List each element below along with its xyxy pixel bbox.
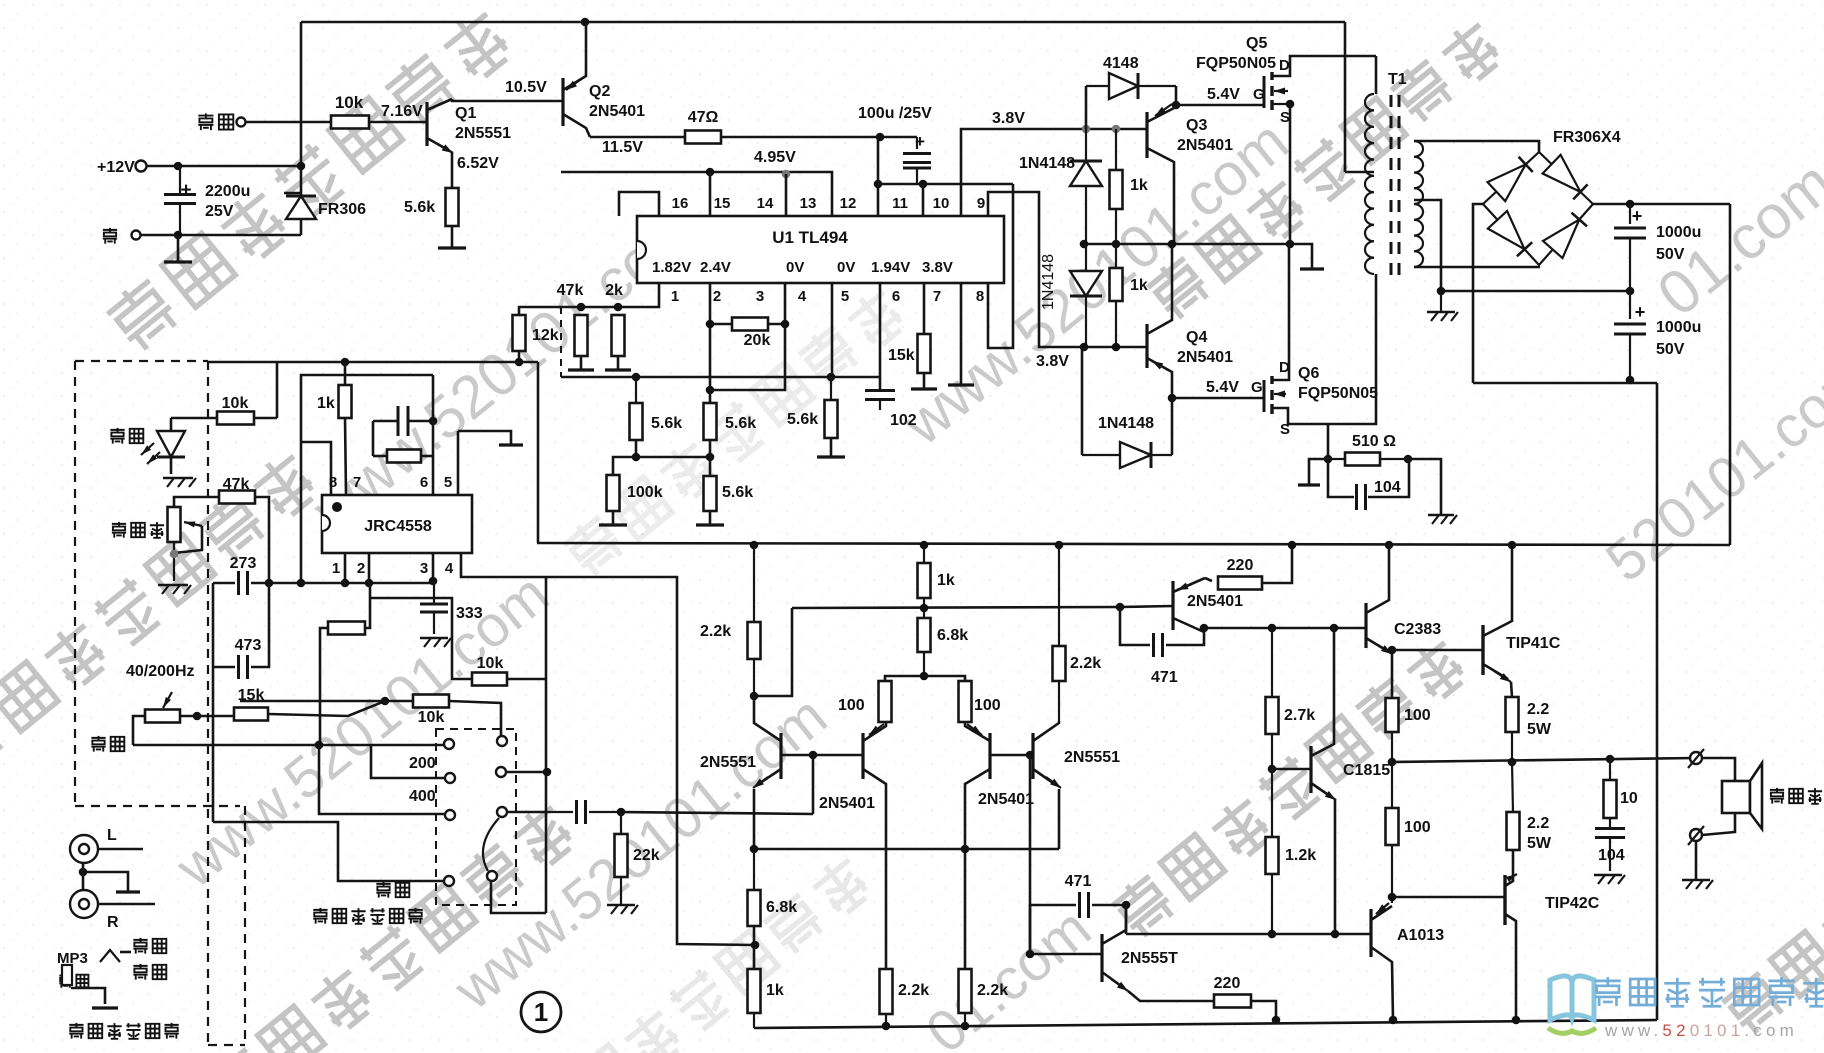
node 2k top xyxy=(614,303,623,312)
node rail 220 xyxy=(1272,1016,1281,1025)
node 3.8V line d2 xyxy=(1112,125,1121,134)
wire Q4 node to diode c xyxy=(1171,398,1174,455)
svg-text:D: D xyxy=(1279,359,1290,376)
resistor R 100 d1 xyxy=(1391,762,1393,808)
svg-text:5.6k: 5.6k xyxy=(404,199,435,216)
svg-text:2.2: 2.2 xyxy=(1527,701,1549,718)
capacitor C 333 xyxy=(433,580,435,603)
node 47k top xyxy=(577,303,586,312)
diode bridge d4 xyxy=(1543,220,1579,259)
svg-text:104: 104 xyxy=(1598,847,1625,864)
label 低音炮 xyxy=(1770,788,1822,804)
wire qk collector riser xyxy=(1125,905,1128,934)
svg-text:2N5551: 2N5551 xyxy=(1064,749,1120,766)
terminal sw r1 xyxy=(497,736,507,746)
ground bar Q1 emitter xyxy=(438,246,466,249)
ground bar mid xyxy=(1300,267,1324,270)
terminal sw r4 xyxy=(487,871,497,881)
node bus tap 1k xyxy=(920,541,929,550)
wire pin9 bracket xyxy=(988,192,1084,347)
diode 4148 top xyxy=(1086,85,1109,87)
terminal control input xyxy=(237,118,246,127)
svg-text:6.52V: 6.52V xyxy=(457,155,499,172)
svg-text:2: 2 xyxy=(713,288,721,305)
wire base R riser xyxy=(1029,755,1032,954)
node Q5 source xyxy=(1286,100,1295,109)
svg-text:2N555T: 2N555T xyxy=(1121,950,1178,967)
svg-text:11: 11 xyxy=(892,195,908,212)
wire pin4 stub and loop xyxy=(710,283,785,390)
resistor R 22k xyxy=(620,812,622,834)
wire tip41 emitter xyxy=(1511,682,1512,697)
svg-text:+: + xyxy=(1632,206,1643,226)
svg-text:2200u: 2200u xyxy=(205,183,250,200)
node c2383 emitter xyxy=(1388,646,1397,655)
svg-text:www.520101.com: www.520101.com xyxy=(1604,1021,1798,1040)
node rail a1013 xyxy=(1389,1016,1398,1025)
watermark layer xyxy=(103,4,517,355)
svg-text:40/200Hz: 40/200Hz xyxy=(126,663,195,680)
resistor R 5.6k-b xyxy=(704,403,717,440)
wire 15k right diag xyxy=(268,701,385,716)
ic U1 TL494 box xyxy=(637,216,1004,283)
capacitor C coupling xyxy=(546,811,573,813)
wire 5.6k-b2 link xyxy=(709,440,712,476)
svg-text:8: 8 xyxy=(976,288,984,305)
svg-text:TIP41C: TIP41C xyxy=(1506,635,1561,652)
node base R tap xyxy=(1026,751,1035,760)
svg-text:102: 102 xyxy=(890,412,917,429)
terminal sw r3 xyxy=(497,807,507,817)
wire vcc row pins 9-11 xyxy=(878,183,1013,186)
svg-text:JRC4558: JRC4558 xyxy=(364,518,432,535)
wire +12V line xyxy=(147,165,301,168)
ground bar 5.6k-b2 xyxy=(696,523,724,526)
wire speaker return xyxy=(1702,813,1735,835)
label control 控制 xyxy=(198,113,233,130)
capacitor C fb small xyxy=(373,420,398,423)
wire output rail xyxy=(1392,758,1696,762)
svg-text:+: + xyxy=(1635,302,1646,322)
node vas c1815 xyxy=(1330,624,1339,633)
capacitor C 473 xyxy=(237,655,240,679)
node gnd cap tap xyxy=(174,231,183,240)
svg-text:2k: 2k xyxy=(605,282,623,299)
wire pot to 15k xyxy=(180,715,234,718)
node fb input join xyxy=(297,579,306,588)
wire pin7 stub xyxy=(923,283,926,334)
wire branch 400 xyxy=(319,745,444,814)
rectifier FR306X4 diamond xyxy=(1483,152,1593,265)
node 20k right pin4 xyxy=(781,320,790,329)
svg-text:2N5401: 2N5401 xyxy=(978,791,1034,808)
resistor R 2.2 5W d xyxy=(1512,762,1513,812)
wire fb2 left down xyxy=(320,628,328,745)
wire bridge minus leg xyxy=(1473,204,1483,383)
potentiometer 主音量 xyxy=(112,522,164,538)
resistor R 10 out xyxy=(1609,759,1611,780)
node 5.6k-a top xyxy=(632,373,641,382)
node vas 2.7k xyxy=(1268,624,1277,633)
wire emitter link row xyxy=(754,848,1059,851)
capacitor C 104 out xyxy=(1609,818,1611,828)
svg-text:D: D xyxy=(1279,57,1290,74)
node out a xyxy=(1388,758,1397,767)
transistor Qi A1013 xyxy=(1369,909,1372,957)
wire pin4 arm xyxy=(461,553,755,945)
wire c1815 emitter down xyxy=(1334,799,1337,934)
node tone mid xyxy=(381,697,390,706)
wire Q2 collector 11.5V xyxy=(590,136,685,139)
wire 10k-1 left xyxy=(370,598,472,679)
wire pin15 stub xyxy=(709,172,712,216)
svg-text:+: + xyxy=(915,132,925,151)
node out c xyxy=(1606,755,1615,764)
wire L line xyxy=(98,848,143,851)
svg-text:FR306X4: FR306X4 xyxy=(1553,129,1621,146)
wire pin5 gnd arm xyxy=(458,431,511,444)
capacitor C 273 xyxy=(237,571,240,595)
svg-text:1k: 1k xyxy=(1130,277,1148,294)
svg-text:L: L xyxy=(107,827,117,844)
wire pin8 bracket xyxy=(988,184,1013,348)
node Vcc 100u tap xyxy=(876,133,885,142)
terminal 地 ground xyxy=(132,231,141,240)
svg-text:15: 15 xyxy=(714,195,731,212)
wire 5.6k-a to 100k node xyxy=(635,440,638,457)
logo site name xyxy=(1595,977,1824,1006)
svg-text:14: 14 xyxy=(757,195,774,212)
svg-text:4: 4 xyxy=(445,560,454,577)
svg-text:2N5401: 2N5401 xyxy=(1177,137,1233,154)
wire minus rail vertical xyxy=(1656,383,1659,1020)
node pot right xyxy=(193,712,202,721)
node vb right xyxy=(1116,603,1125,612)
wire bridge plus to caps xyxy=(1593,203,1730,206)
wire 473 row right xyxy=(251,583,269,667)
transistor Qa 2N5551-L xyxy=(779,733,782,779)
resistor R 5.6k-c xyxy=(830,377,832,400)
wire 47k gnd xyxy=(580,356,583,369)
svg-text:Q3: Q3 xyxy=(1186,117,1207,134)
wire control to 10k xyxy=(246,121,331,124)
wire bus riser from preamp rail xyxy=(537,362,540,543)
node pin1 xyxy=(341,579,350,588)
node snubber right xyxy=(1404,455,1413,464)
svg-text:471: 471 xyxy=(1151,669,1178,686)
capacitor C 2200u/25V xyxy=(179,166,181,194)
node 4.95V pin13 xyxy=(782,170,791,179)
diode bridge d1 xyxy=(1488,164,1526,201)
wire plus rail vertical xyxy=(1729,204,1732,545)
svg-text:5.4V: 5.4V xyxy=(1207,86,1240,103)
resistor R 2.2k-L xyxy=(753,545,755,622)
node q4 b xyxy=(1112,343,1121,352)
terminal out + xyxy=(1690,752,1702,764)
dashed box around 47k/2k xyxy=(560,307,562,377)
svg-text:100: 100 xyxy=(1404,707,1431,724)
svg-text:+: + xyxy=(180,180,191,201)
svg-text:1.82V: 1.82V xyxy=(652,259,691,276)
potentiometer 40/200Hz xyxy=(163,697,171,708)
wire pin5 stub xyxy=(831,283,834,377)
wire jrc pin3 stub xyxy=(432,553,435,580)
transistor Q6 FQP50N05 mosfet xyxy=(1263,380,1266,412)
node drv collector xyxy=(1200,624,1209,633)
wire mid junction row xyxy=(1084,243,1290,246)
wire sw moving contact xyxy=(483,818,499,871)
svg-text:Q5: Q5 xyxy=(1246,35,1267,52)
wire 1k to pin7 xyxy=(345,418,346,494)
wire ground line xyxy=(141,234,301,237)
svg-text:220: 220 xyxy=(1214,975,1241,992)
node 273 right xyxy=(265,579,274,588)
wire lowwide row xyxy=(133,744,444,747)
svg-text:1k: 1k xyxy=(317,395,335,412)
wire 20k left xyxy=(710,323,732,326)
node Q3 emitter gate node xyxy=(1172,101,1181,110)
resistor R 100k xyxy=(607,475,620,511)
svg-text:1: 1 xyxy=(534,997,548,1027)
svg-text:100k: 100k xyxy=(627,484,663,501)
capacitor C 471 top xyxy=(1120,607,1150,645)
node tip42 base node xyxy=(1388,893,1397,902)
svg-text:R: R xyxy=(107,914,119,931)
svg-text:2N5401: 2N5401 xyxy=(1187,593,1243,610)
svg-text:13: 13 xyxy=(800,195,817,212)
svg-text:5: 5 xyxy=(841,288,849,305)
svg-text:+12V: +12V xyxy=(97,159,135,176)
svg-text:2.4V: 2.4V xyxy=(700,259,731,276)
wire Q5 drain to T1 top xyxy=(1375,56,1378,94)
resistor R 1.2k xyxy=(1271,769,1273,837)
wire preamp rail xyxy=(208,361,538,364)
resistor R 47ohm xyxy=(685,131,721,144)
wire 100k link xyxy=(613,457,636,475)
ground bar 15k xyxy=(911,387,937,390)
capacitor C 471 bottom xyxy=(1030,905,1076,954)
node fb right xyxy=(429,417,438,426)
wire gnd mid line xyxy=(1441,290,1630,293)
svg-text:6.8k: 6.8k xyxy=(766,899,797,916)
resistor R 510ohm xyxy=(1328,458,1345,460)
svg-text:A1013: A1013 xyxy=(1397,927,1444,944)
svg-text:20k: 20k xyxy=(744,332,771,349)
wire vb elbow xyxy=(754,608,792,696)
node rail tip42 xyxy=(1512,1016,1521,1025)
transformer T1 core xyxy=(1390,95,1393,278)
resistor R 220 bottom xyxy=(1214,995,1251,1008)
resistor R 100 u1 xyxy=(1386,698,1399,732)
terminal sw l3 xyxy=(445,810,455,820)
ground bar 5.6k-c xyxy=(817,455,845,458)
capacitor C 1000u/50V #1 xyxy=(1629,204,1631,224)
resistor R 2.2k-c2 xyxy=(959,969,972,1013)
svg-text:7.16V: 7.16V xyxy=(381,103,423,120)
jack MP3 xyxy=(100,950,120,962)
resistor R 100-R xyxy=(959,681,972,722)
svg-text:5.6k: 5.6k xyxy=(787,411,818,428)
svg-text:S: S xyxy=(1280,109,1290,126)
resistor R jrc fb2 xyxy=(328,622,365,635)
svg-text:104: 104 xyxy=(1374,479,1401,496)
wire snubber right gnd xyxy=(1408,459,1441,514)
label 地 xyxy=(103,228,117,244)
node bus tap 2.2k-L xyxy=(750,541,759,550)
wire 4148 right to Q3 emitter xyxy=(1175,86,1178,105)
svg-text:1N4148: 1N4148 xyxy=(1098,415,1154,432)
svg-text:8: 8 xyxy=(329,474,337,491)
svg-text:10: 10 xyxy=(1620,790,1638,807)
svg-text:2N5401: 2N5401 xyxy=(1177,349,1233,366)
node mid 945 xyxy=(751,941,760,950)
svg-text:3.8V: 3.8V xyxy=(1036,353,1069,370)
resistor R 15k xyxy=(918,334,931,373)
transistor Q3 2N5401 xyxy=(1145,112,1148,158)
wire pin10 stub xyxy=(922,184,925,216)
wire 10k up to rail xyxy=(276,362,279,418)
wire pin10b 3.8V riser xyxy=(961,129,1147,216)
wire 220 to rail xyxy=(1251,1001,1276,1020)
svg-text:400: 400 xyxy=(409,788,436,805)
svg-text:1k: 1k xyxy=(937,572,955,589)
resistor R 100-L xyxy=(879,681,892,722)
wire fb left leg xyxy=(372,421,375,456)
wire 47k right down xyxy=(255,497,269,583)
capacitor C 102 xyxy=(865,389,895,392)
resistor R 5.6k (Q1 emitter) xyxy=(446,188,459,226)
wire pin11 stub xyxy=(877,137,880,216)
wire fb right leg pin6 xyxy=(432,375,435,494)
transformer T1 primary xyxy=(1365,94,1374,110)
resistor R 1k (jrc vcc) xyxy=(339,385,352,418)
wire pin7b stub gnd xyxy=(960,283,963,384)
wire secondary top to bridge xyxy=(1414,141,1539,152)
svg-text:FQP50N05: FQP50N05 xyxy=(1196,55,1276,72)
transistor Qk 2N5551 bottom xyxy=(1100,934,1103,982)
resistor R 10k (led) xyxy=(171,417,217,420)
svg-text:TIP42C: TIP42C xyxy=(1545,895,1600,912)
svg-text:3: 3 xyxy=(420,560,428,577)
capacitor C 100u/25V xyxy=(916,137,918,149)
wire fb2 right up xyxy=(365,583,370,628)
resistor R 2.7k xyxy=(1271,628,1273,697)
ground hash LED xyxy=(163,477,193,480)
svg-text:2N5401: 2N5401 xyxy=(819,795,875,812)
svg-text:5W: 5W xyxy=(1527,835,1552,852)
svg-text:G: G xyxy=(1251,379,1263,396)
svg-text:5.6k: 5.6k xyxy=(725,415,756,432)
node amp input xyxy=(809,751,818,760)
node snubber left xyxy=(1324,455,1333,464)
ground hash snubber xyxy=(1428,514,1454,517)
wire rail to 1k jrc xyxy=(344,362,347,385)
node mid d xyxy=(1286,240,1295,249)
svg-text:10k: 10k xyxy=(418,709,445,726)
wire 100k gnd xyxy=(612,511,615,524)
wire Qa emitter down xyxy=(753,789,756,849)
wire out- gnd xyxy=(1695,841,1698,879)
svg-text:2.7k: 2.7k xyxy=(1284,707,1315,724)
node pin2 pin4 tap xyxy=(706,386,715,395)
svg-text:5.4V: 5.4V xyxy=(1206,379,1239,396)
wire vb row xyxy=(792,607,1120,608)
transistor Qf C1815 xyxy=(1309,746,1312,793)
transistor Q2 2N5401 xyxy=(561,78,564,126)
svg-text:2N5551: 2N5551 xyxy=(455,125,511,142)
transistor Q4 2N5401 xyxy=(1145,324,1148,368)
svg-text:471: 471 xyxy=(1065,873,1092,890)
wire 15k gnd xyxy=(923,373,926,388)
resistor R 6.8k amp xyxy=(918,618,931,652)
wire secondary bottom to bridge xyxy=(1414,266,1540,269)
resistor R 1k amp xyxy=(923,545,925,563)
svg-text:0V: 0V xyxy=(837,259,855,276)
wire a1013 base xyxy=(1335,933,1371,936)
node em R2 xyxy=(961,845,970,854)
wire jrc input row xyxy=(213,582,235,585)
jack RCA R xyxy=(70,890,98,918)
node pot bottom xyxy=(170,550,179,559)
capacitor C 1000u/50V #2 xyxy=(1629,291,1631,319)
wire Q1 collector to Q2 base xyxy=(452,99,563,101)
resistor R 47k (vol) xyxy=(219,491,255,504)
svg-text:5.6k: 5.6k xyxy=(651,415,682,432)
node out b xyxy=(1508,758,1517,767)
wire 5.6k-c gnd xyxy=(830,438,833,456)
svg-text:1N4148: 1N4148 xyxy=(1019,155,1075,172)
wire c1815 base xyxy=(1272,768,1311,771)
wire 4148 left leg xyxy=(1085,86,1088,129)
svg-text:7: 7 xyxy=(353,474,361,491)
wire node a to pin2 line xyxy=(636,456,710,459)
resistor R 10k-2 xyxy=(413,695,449,708)
svg-text:2: 2 xyxy=(357,560,365,577)
wire rca link xyxy=(82,863,85,890)
wire 473 row left xyxy=(213,666,235,669)
svg-text:6.8k: 6.8k xyxy=(937,627,968,644)
wire pin5 stub xyxy=(457,431,460,494)
ground hash pot xyxy=(158,584,188,587)
wire out to speaker xyxy=(1702,758,1735,781)
resistor R 2.2k-R xyxy=(1058,545,1060,646)
wire Q1 emitter down xyxy=(451,152,454,188)
wire pin16 hook xyxy=(619,192,659,216)
svg-text:1000u: 1000u xyxy=(1656,224,1701,241)
wire 100R top xyxy=(924,676,965,681)
wire jrc pin1 stub xyxy=(344,553,347,583)
node 100k row a xyxy=(632,453,641,462)
diode FR306 xyxy=(286,196,316,219)
svg-text:10k: 10k xyxy=(477,655,504,672)
node +12V cap tap xyxy=(174,162,183,171)
wire sw common r2 xyxy=(507,771,547,774)
svg-text:10.5V: 10.5V xyxy=(505,79,547,96)
node gnd mid left xyxy=(1437,287,1446,296)
wire pin2 stub down xyxy=(709,283,712,403)
dashed box band switch xyxy=(436,729,516,905)
svg-text:200: 200 xyxy=(409,755,436,772)
resistor R 1k a xyxy=(1115,129,1117,170)
wire gnd stub down xyxy=(177,235,180,261)
ground hash out- xyxy=(1682,879,1710,882)
node 2.2k-L bottom xyxy=(750,692,759,701)
wire band riser xyxy=(545,577,548,913)
svg-text:100u /25V: 100u /25V xyxy=(858,105,932,122)
node bus tip41 xyxy=(1508,541,1517,550)
svg-text:7: 7 xyxy=(933,288,941,305)
terminal sw l4 xyxy=(444,876,454,886)
